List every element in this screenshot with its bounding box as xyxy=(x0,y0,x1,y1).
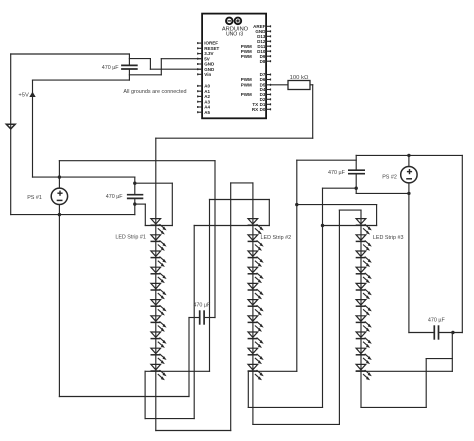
svg-text:470 µF: 470 µF xyxy=(106,194,124,200)
svg-text:PWM: PWM xyxy=(241,92,252,97)
svg-text:LED Strip #1: LED Strip #1 xyxy=(115,234,146,240)
svg-text:LED Strip #2: LED Strip #2 xyxy=(261,235,292,241)
svg-text:D0: D0 xyxy=(260,107,266,112)
svg-text:LED Strip #3: LED Strip #3 xyxy=(373,235,404,241)
svg-text:5V: 5V xyxy=(204,56,210,61)
svg-text:470 µF: 470 µF xyxy=(328,170,346,176)
svg-text:470 µF: 470 µF xyxy=(193,302,211,308)
svg-text:A5: A5 xyxy=(204,110,210,115)
svg-text:Vin: Vin xyxy=(204,72,211,77)
svg-text:UNO r3: UNO r3 xyxy=(226,31,243,37)
svg-text:A2: A2 xyxy=(204,94,210,99)
svg-text:D8: D8 xyxy=(260,59,266,64)
svg-text:PWM: PWM xyxy=(241,54,252,59)
svg-text:470 µF: 470 µF xyxy=(428,318,446,324)
svg-text:RX: RX xyxy=(252,107,258,112)
svg-text:PS #1: PS #1 xyxy=(27,195,42,201)
svg-text:PWM: PWM xyxy=(241,77,252,82)
svg-text:PS #2: PS #2 xyxy=(382,174,397,180)
svg-text:A3: A3 xyxy=(204,99,210,104)
svg-text:D6: D6 xyxy=(260,77,266,82)
svg-text:RESET: RESET xyxy=(204,46,219,51)
svg-text:470 µF: 470 µF xyxy=(102,65,120,71)
svg-text:PWM: PWM xyxy=(241,82,252,87)
svg-text:All grounds are connected: All grounds are connected xyxy=(123,89,186,95)
svg-text:A0: A0 xyxy=(204,84,210,89)
svg-text:+5V: +5V xyxy=(18,92,29,98)
svg-text:100 kΩ: 100 kΩ xyxy=(290,75,309,81)
